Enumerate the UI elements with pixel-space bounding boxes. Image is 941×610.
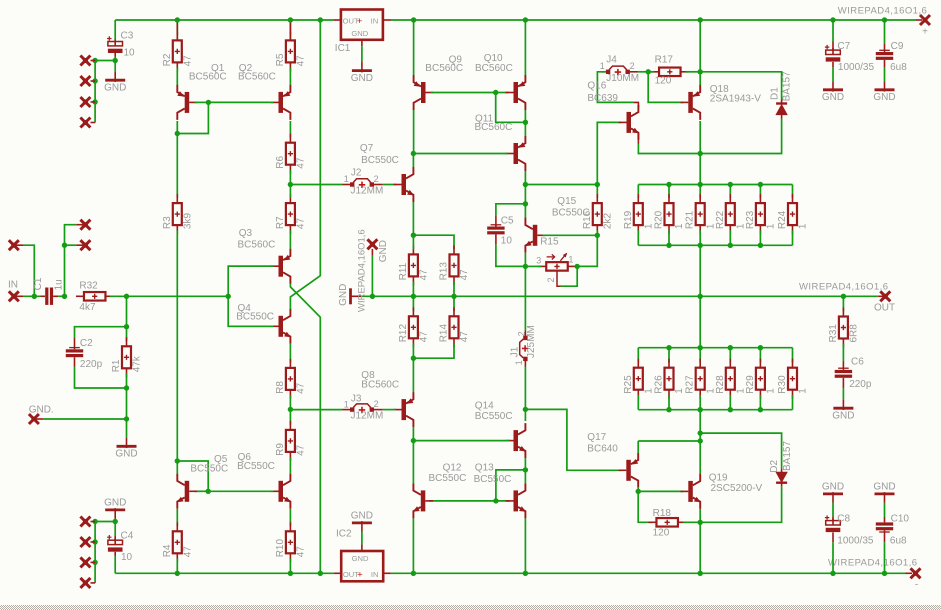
ground symbol on mid rail <box>349 288 352 304</box>
svg-text:BC550C: BC550C <box>429 473 467 484</box>
resistor R21 <box>699 185 701 198</box>
wire Q11 collector down <box>524 171 526 185</box>
wire Q1 collector to R3 <box>176 134 178 198</box>
svg-text:D1: D1 <box>770 87 781 100</box>
wire Q8 collector down <box>412 427 414 441</box>
capacitor C10 <box>884 517 886 522</box>
wirepad IN <box>9 291 19 301</box>
svg-text:GND: GND <box>351 510 373 521</box>
resistor R10 <box>286 531 295 553</box>
wire base fan down <box>228 296 273 326</box>
wire Q1 base node <box>195 101 209 103</box>
svg-text:2SA1943-V: 2SA1943-V <box>710 93 761 104</box>
svg-text:1: 1 <box>798 223 809 229</box>
junction bottom rail R4 <box>175 571 180 576</box>
wire R10 to bottom rail <box>289 559 291 574</box>
resistor R25 <box>637 348 639 363</box>
resistor R13 <box>450 254 459 276</box>
junction mid rail R11 <box>411 294 416 299</box>
junction X column 1 <box>92 58 97 63</box>
wire R13 bottom to rail <box>453 282 455 297</box>
svg-text:1: 1 <box>766 388 777 394</box>
wire Q4 collector diagonal to top rail <box>290 20 320 309</box>
svg-text:220p: 220p <box>849 379 872 390</box>
wire rail to R12 <box>412 296 414 311</box>
svg-text:1000/35: 1000/35 <box>838 62 875 73</box>
resistor R4 <box>173 531 182 553</box>
junction Q5 collector node <box>175 458 180 463</box>
wire X column vertical bottom <box>94 522 96 583</box>
wire wirepad drop <box>371 255 373 296</box>
wire D1 bottom branch <box>700 119 781 154</box>
svg-text:R15: R15 <box>540 237 559 248</box>
junction D2 top node <box>698 430 703 435</box>
wire C8 gnd stem <box>832 503 834 517</box>
IC2 ground symbol <box>361 545 363 552</box>
wire Q7 collector up <box>412 154 414 168</box>
wire Q7 emitter to R11 node <box>412 202 414 235</box>
junction bank2 bottom R26 <box>666 407 671 412</box>
wire Q4 emitter to R8 <box>289 344 291 363</box>
wire Q11 node to R16 node <box>525 184 597 186</box>
wire Q15 node down across rail to J1 <box>524 266 526 330</box>
junction Q8 Q12 node <box>411 438 416 443</box>
junction C3 gnd node <box>113 58 118 63</box>
wire R8 to J3 node <box>289 395 291 409</box>
svg-text:WIREPAD4,16O1,6: WIREPAD4,16O1,6 <box>838 6 927 17</box>
svg-text:BA157: BA157 <box>782 441 793 471</box>
svg-text:GND.: GND. <box>29 404 54 415</box>
svg-text:C4: C4 <box>121 531 134 542</box>
junction Q1 base <box>206 100 211 105</box>
svg-text:220p: 220p <box>80 359 103 370</box>
wire C6 to ground <box>842 388 844 399</box>
svg-text:47k: 47k <box>132 355 143 372</box>
trimmer R15 <box>546 262 568 271</box>
wire X column vertical <box>94 61 96 123</box>
junction mid rail R13 <box>451 294 456 299</box>
svg-text:BC550C: BC550C <box>552 207 590 218</box>
wire emitter node to base rail <box>496 470 526 501</box>
junction top rail C9 <box>882 17 887 22</box>
wire Q13 collector up <box>524 470 526 484</box>
svg-text:C9: C9 <box>891 41 904 52</box>
transistor Q1 BC560C <box>185 92 190 113</box>
svg-text:C3: C3 <box>121 31 134 42</box>
wire Q5 base <box>195 490 209 492</box>
svg-text:Q17: Q17 <box>587 432 606 443</box>
junction top rail Q10 <box>523 17 528 22</box>
capacitor C8 <box>832 517 834 521</box>
svg-text:10: 10 <box>121 552 133 563</box>
wire node to J2 <box>290 184 342 186</box>
wire C2 bottom branch <box>75 367 127 389</box>
wirepad X OUT <box>878 295 885 297</box>
junction bank2 top R28 <box>728 345 733 350</box>
resistor R12 <box>409 316 418 338</box>
svg-text:GND: GND <box>873 92 895 103</box>
junction J4 R17 node <box>646 69 651 74</box>
wire Q10 collector <box>524 110 526 122</box>
wire Q17 collector to Q19 base <box>638 490 683 492</box>
capacitor C4 <box>114 552 116 556</box>
svg-text:47: 47 <box>459 269 470 281</box>
junction top rail C7 <box>830 17 835 22</box>
wire bank2 top rail <box>638 347 792 349</box>
svg-text:J12MM: J12MM <box>351 411 384 422</box>
wire C3 bottom <box>114 57 116 61</box>
junction Q1 collector node <box>175 131 180 136</box>
wire R12 R14 bottoms join <box>413 344 454 359</box>
wirepad X supply b2 <box>91 541 96 543</box>
wire node to R9 <box>289 409 291 424</box>
junction bank2 bottom R29 <box>758 407 763 412</box>
junction Q14 emitter node <box>523 467 528 472</box>
transistor Q15 BC550C <box>533 225 538 246</box>
svg-text:IC1: IC1 <box>335 43 351 54</box>
svg-text:GND: GND <box>352 554 369 563</box>
transistor Q9 BC560C <box>421 82 426 103</box>
diode D1 BA157 <box>776 102 787 104</box>
svg-text:GND: GND <box>378 240 389 262</box>
junction bank2 top R26 <box>666 345 671 350</box>
wire R11 top <box>412 235 414 249</box>
svg-text:Q3: Q3 <box>239 228 253 239</box>
svg-text:120: 120 <box>655 75 672 86</box>
wire R4 to bottom rail <box>176 559 178 574</box>
junction X lug node <box>62 243 67 248</box>
wire D1 top branch <box>700 72 781 100</box>
wirepad X mid gnd <box>367 239 377 249</box>
svg-text:GND: GND <box>104 82 126 93</box>
wire bank1 bottom rail <box>638 244 792 246</box>
resistor R3 <box>173 203 182 225</box>
wire J3 to Q8 base <box>383 409 396 411</box>
svg-text:47: 47 <box>296 444 307 456</box>
svg-text:R30: R30 <box>777 375 788 394</box>
diode D2 BA157 <box>776 472 786 482</box>
wire Q9 collector down <box>413 110 415 154</box>
wire Q16 base drop <box>597 122 621 184</box>
wire C3 gnd stem <box>114 61 116 72</box>
svg-text:47: 47 <box>296 546 307 558</box>
wire Q9 base <box>431 92 496 94</box>
svg-text:WIREPAD4,16O1,6: WIREPAD4,16O1,6 <box>799 282 888 293</box>
svg-text:Q7: Q7 <box>360 143 374 154</box>
svg-text:47: 47 <box>296 382 307 394</box>
wire input node line <box>127 295 229 297</box>
junction R16 top node <box>595 182 600 187</box>
ground above C8 <box>832 494 834 503</box>
svg-text:R12: R12 <box>398 324 409 343</box>
transistor Q16 BC639 <box>627 112 632 133</box>
wire J2 to Q7 base <box>383 184 396 186</box>
svg-text:C10: C10 <box>891 514 910 525</box>
wire rail end up to C4 <box>114 556 116 573</box>
ground below C9 <box>884 81 886 90</box>
svg-text:47: 47 <box>419 331 430 343</box>
wire node to Q17 base path <box>525 409 621 470</box>
svg-text:3k9: 3k9 <box>183 213 194 230</box>
IC1 regulator box <box>341 10 383 40</box>
svg-text:GND: GND <box>351 73 373 84</box>
junction Q17 emitter node <box>698 438 703 443</box>
resistor R17 <box>659 68 681 77</box>
transistor Q10 BC560C <box>514 82 519 103</box>
svg-text:BC639: BC639 <box>587 93 618 104</box>
wire R32 to R1 node <box>110 295 127 297</box>
svg-text:+: + <box>922 27 928 38</box>
junction IN node <box>32 294 37 299</box>
junction bank1 top R21 <box>698 182 703 187</box>
wire IN to C1 <box>23 295 41 297</box>
wire Q12 base line <box>429 500 510 502</box>
wirepad X supply 2 <box>91 80 96 82</box>
wire R17 right to rail <box>686 71 701 73</box>
wire D2 bottom branch <box>700 487 781 523</box>
wire Q14 emitter <box>524 458 526 470</box>
svg-text:47: 47 <box>459 331 470 343</box>
junction Q5 base node <box>206 489 211 494</box>
wire node to R7 <box>289 185 291 198</box>
svg-text:C5: C5 <box>501 215 514 226</box>
svg-text:+: + <box>357 569 363 580</box>
svg-text:BC550C: BC550C <box>190 463 228 474</box>
svg-text:GND: GND <box>351 29 368 38</box>
resistor R30 <box>792 348 794 363</box>
junction C1 R32 node <box>62 294 67 299</box>
transistor Q12 BC550C <box>421 490 426 511</box>
junction Q7 Q9 node <box>411 151 416 156</box>
svg-text:J25MM: J25MM <box>526 325 537 358</box>
junction pot pin1 node <box>575 264 580 269</box>
resistor R1 <box>122 346 131 368</box>
junction bank2 top R27 <box>698 345 703 350</box>
wire node to R13 <box>413 235 454 249</box>
svg-text:Q16: Q16 <box>587 81 606 92</box>
jumper J3 J12MM <box>343 409 351 411</box>
wire Q17 emitter to column <box>637 441 639 453</box>
junction C2 R1 top <box>124 324 129 329</box>
svg-text:BC560C: BC560C <box>475 122 513 133</box>
svg-text:J12MM: J12MM <box>351 186 384 197</box>
junction R16 bottom node <box>595 233 600 238</box>
resistor R5 <box>286 40 295 62</box>
svg-text:10: 10 <box>501 236 513 247</box>
wire C4 gnd stem <box>114 519 116 522</box>
wire R2 to Q1 emitter <box>176 68 178 85</box>
svg-text:1: 1 <box>674 223 685 229</box>
wire R5 to Q2 emitter <box>289 68 291 85</box>
wirepad X supply b1 <box>91 521 96 523</box>
svg-text:R14: R14 <box>439 324 450 343</box>
svg-text:C6: C6 <box>851 357 864 368</box>
wire D2 top branch <box>700 433 781 468</box>
junction top rail R5 <box>288 17 293 22</box>
wire Q13 emitter to rail <box>524 518 526 573</box>
svg-text:C2: C2 <box>80 338 93 349</box>
resistor R18 <box>656 518 678 527</box>
junction Q11 collector node <box>523 182 528 187</box>
wire R11 bottom to rail <box>412 282 414 297</box>
transistor Q5 BC550C <box>185 481 190 502</box>
wire Q15 emitter down <box>524 253 526 267</box>
svg-text:R25: R25 <box>623 375 634 394</box>
capacitor C1 <box>41 295 46 297</box>
jumper J1 J25MM <box>524 331 526 338</box>
ground below C7 <box>832 81 834 90</box>
resistor R7 <box>286 203 295 225</box>
svg-text:-: - <box>915 580 918 591</box>
svg-text:R4: R4 <box>162 544 173 557</box>
resistor R22 <box>729 185 731 198</box>
svg-text:BC560C: BC560C <box>475 63 513 74</box>
junction bank1 bottom R20 <box>666 243 671 248</box>
transistor Q2 BC560C <box>279 92 284 113</box>
wirepad GND. <box>29 414 39 424</box>
junction R6 R7 J2 node <box>288 182 293 187</box>
svg-text:GND: GND <box>822 92 844 103</box>
wire mid rail to bank2 <box>699 296 701 347</box>
junction bottom rail Q12 <box>411 571 416 576</box>
svg-text:3: 3 <box>536 256 541 266</box>
junction top rail Q4 collector line <box>318 17 323 22</box>
wire J1 to Q14 node <box>524 367 526 410</box>
wire J4 pad2 to R17 node <box>638 71 649 73</box>
junction R8 R9 J3 node <box>288 407 293 412</box>
svg-text:1: 1 <box>514 360 524 365</box>
svg-text:6R8: 6R8 <box>849 324 860 343</box>
ground above C4 <box>114 510 116 519</box>
wire Q11 node down to Q15 <box>524 185 526 219</box>
IC2 regulator box <box>341 551 383 581</box>
wire bank1 top rail <box>638 184 792 186</box>
ground above C10 <box>884 494 886 503</box>
svg-text:2: 2 <box>546 277 556 282</box>
wire R9 to Q6 collector <box>289 457 291 474</box>
wirepad X supply 4 <box>91 122 96 124</box>
transistor Q18 2SA1943 <box>688 92 693 113</box>
svg-text:GND: GND <box>338 284 349 306</box>
svg-text:R28: R28 <box>715 375 726 394</box>
svg-text:R6: R6 <box>275 155 286 168</box>
junction X column 3 <box>92 99 97 104</box>
svg-text:IC2: IC2 <box>336 529 352 540</box>
svg-text:R2: R2 <box>162 53 173 66</box>
wire R3 down long line to Q5 <box>176 230 178 461</box>
wire node to Q14 collector <box>524 409 526 421</box>
svg-text:C1: C1 <box>33 277 44 290</box>
svg-text:J3: J3 <box>351 394 362 405</box>
svg-text:IN: IN <box>8 279 18 290</box>
wire node down to R18 <box>638 491 651 522</box>
svg-text:+: + <box>357 16 363 27</box>
wire rail to C9 <box>884 20 886 44</box>
junction Q9 Q10 base node <box>493 90 498 95</box>
wire J3 node line <box>290 409 342 411</box>
wire C4 top to gnd node <box>114 522 116 537</box>
junction bottom rail C10 <box>882 571 887 576</box>
wire GND. to node <box>43 418 126 420</box>
wire Q1 collector <box>176 121 178 134</box>
svg-text:4k7: 4k7 <box>79 302 96 313</box>
wire bank2 down <box>699 410 701 474</box>
svg-text:1000/35: 1000/35 <box>837 536 874 547</box>
junction Q18 collector node <box>698 151 703 156</box>
svg-text:BC550C: BC550C <box>236 312 274 323</box>
junction Q3 Q4 base fan <box>226 294 231 299</box>
junction Q17 collector node <box>636 489 641 494</box>
junction bank1 bottom R22 <box>728 243 733 248</box>
capacitor C9 <box>884 44 886 52</box>
svg-text:Q19: Q19 <box>709 472 728 483</box>
transistor Q8 BC560C <box>402 399 407 420</box>
svg-text:R8: R8 <box>275 381 286 394</box>
jumper J2 J12MM <box>343 184 351 186</box>
svg-text:BC550C: BC550C <box>475 411 513 422</box>
wire C3 top <box>114 20 116 40</box>
capacitor C5 <box>495 216 497 227</box>
wire X lug 1 down <box>65 225 77 297</box>
wire Q17 emitter line <box>638 440 700 442</box>
svg-text:D2: D2 <box>769 459 780 472</box>
wire C1 to node <box>58 295 64 297</box>
svg-text:R24: R24 <box>777 210 788 229</box>
transistor Q4 BC550C <box>279 316 284 337</box>
junction X column b3 <box>92 560 97 565</box>
junction bank1 top R22 <box>728 182 733 187</box>
svg-text:1: 1 <box>344 400 349 410</box>
svg-text:47: 47 <box>296 55 307 67</box>
ground below C6 <box>842 400 844 409</box>
wirepad X gnd lug 2 <box>80 240 90 250</box>
svg-text:R3: R3 <box>162 216 173 229</box>
wirepad X supply 1 <box>91 60 96 62</box>
svg-text:R10: R10 <box>275 539 286 558</box>
svg-text:GND: GND <box>115 449 137 460</box>
junction Q12 Q13 base node <box>493 498 498 503</box>
svg-text:1u: 1u <box>54 279 65 290</box>
wire R6 to node <box>289 170 291 185</box>
wire R16 bottom <box>596 230 598 235</box>
svg-text:6u8: 6u8 <box>890 536 907 547</box>
wire base fan up <box>228 266 273 296</box>
wire Q5 base loop <box>177 461 208 491</box>
resistor R28 <box>729 348 731 363</box>
resistor R26 <box>668 348 670 363</box>
wire bank1 to mid rail <box>699 245 701 296</box>
wire Q19 emitter node to rail <box>699 522 701 573</box>
resistor R11 <box>409 254 418 276</box>
svg-text:BC640: BC640 <box>587 444 618 455</box>
svg-text:1: 1 <box>674 388 685 394</box>
wire base node to Q11 loop <box>496 93 526 123</box>
wire top rail to R5 <box>289 20 291 35</box>
junction top rail Q9 <box>411 17 416 22</box>
wire C7 to ground <box>832 68 834 82</box>
wire top rail to Q9 emitter <box>413 20 415 75</box>
svg-text:47: 47 <box>296 157 307 169</box>
wire to Q10 base <box>496 92 509 94</box>
wire X column to C3 node <box>95 60 115 62</box>
wire rail to R14 <box>453 296 455 311</box>
wire J4 pad1 to Q16 collector <box>597 72 633 103</box>
wire R17 left <box>648 71 654 73</box>
junction bank2 bottom R27 <box>698 407 703 412</box>
wire C5 bottom branch <box>496 244 526 266</box>
junction bank2 top R29 <box>758 345 763 350</box>
svg-text:R21: R21 <box>685 210 696 229</box>
